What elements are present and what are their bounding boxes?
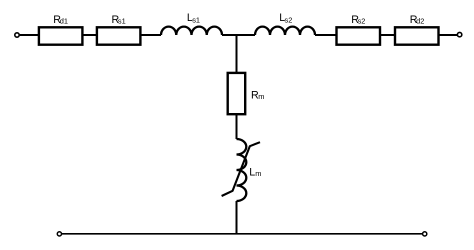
bottom rail wire xyxy=(62,233,423,235)
wire xyxy=(236,201,238,234)
wire xyxy=(315,34,337,36)
label Rd1 xyxy=(53,14,68,26)
resistor Rm xyxy=(228,73,246,114)
inductor Ls2 xyxy=(255,27,315,35)
svg-text:m: m xyxy=(255,169,261,178)
label Rs2 xyxy=(351,14,365,26)
label Rm xyxy=(251,90,264,102)
inductor Lm xyxy=(237,139,247,201)
label Rs1 xyxy=(112,14,126,26)
wire xyxy=(140,34,161,36)
nonlinearity stroke through Lm xyxy=(222,142,260,196)
svg-text:s1: s1 xyxy=(118,17,126,26)
svg-text:d2: d2 xyxy=(416,17,424,26)
svg-text:m: m xyxy=(258,92,264,101)
label Ls2 xyxy=(279,12,292,25)
label Ls1 xyxy=(187,12,200,25)
resistor Rd1 xyxy=(39,27,83,44)
wire xyxy=(236,114,238,139)
label Lm xyxy=(249,166,261,178)
wire xyxy=(82,34,97,36)
node A (center tap) wire xyxy=(236,35,238,73)
resistor Rd2 xyxy=(395,27,439,44)
wire xyxy=(380,34,395,36)
terminal T3 (bottom left) xyxy=(57,232,61,236)
resistor Rs2 xyxy=(337,27,381,44)
terminal T2 (top right) xyxy=(457,32,461,36)
terminal T4 (bottom right) xyxy=(423,232,427,236)
resistor Rs1 xyxy=(97,27,140,44)
svg-text:s1: s1 xyxy=(192,16,200,25)
terminal T1 (top left) xyxy=(15,33,19,37)
svg-text:s2: s2 xyxy=(358,17,366,26)
wire xyxy=(20,34,38,36)
label Rd2 xyxy=(410,14,425,26)
inductor Ls1 xyxy=(161,27,222,35)
wire xyxy=(222,34,255,36)
svg-text:d1: d1 xyxy=(60,17,68,26)
svg-text:s2: s2 xyxy=(285,16,293,25)
wire xyxy=(439,34,458,36)
